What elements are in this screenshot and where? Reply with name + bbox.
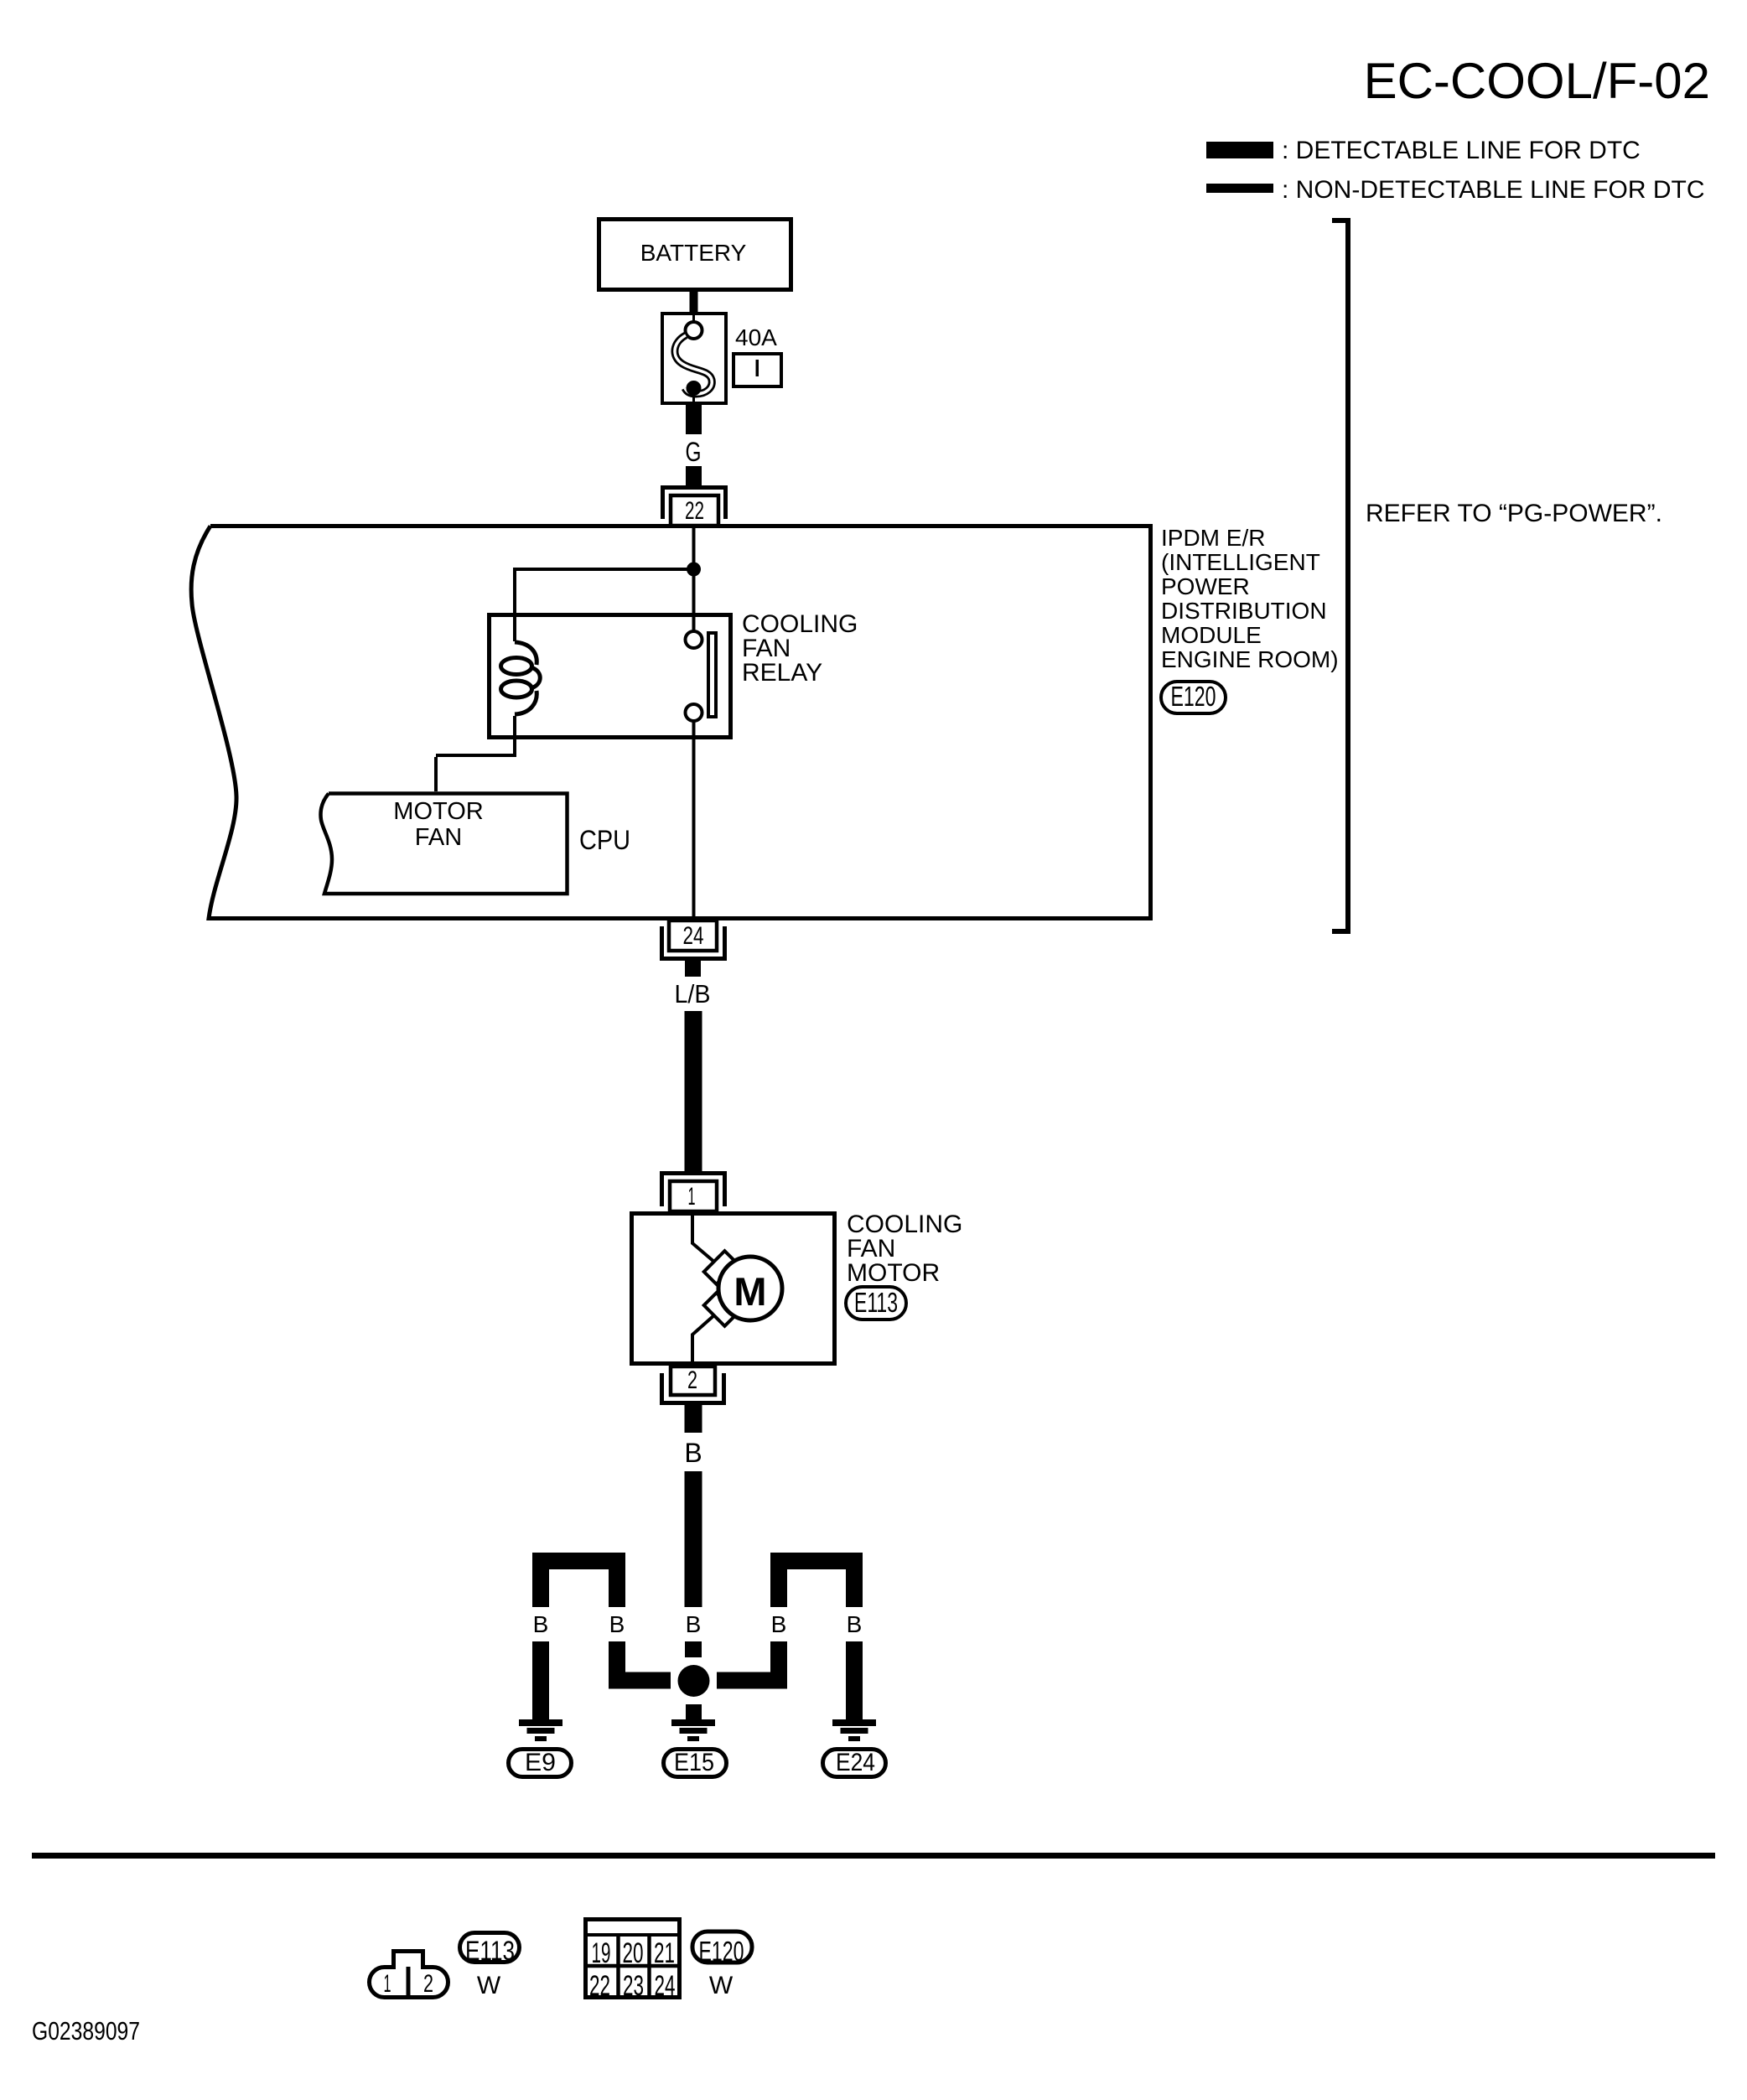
wire to upper brush xyxy=(692,1214,715,1263)
ground E15 xyxy=(671,1719,715,1741)
svg-text:24: 24 xyxy=(655,1970,676,2002)
connector label E9 xyxy=(509,1749,572,1777)
svg-text:W: W xyxy=(709,1972,734,1999)
relay contact xyxy=(686,631,717,721)
fuse location box I xyxy=(734,354,781,386)
svg-text:BATTERY: BATTERY xyxy=(640,240,747,266)
svg-text:23: 23 xyxy=(623,1970,644,2002)
label motor fan xyxy=(393,798,483,851)
svg-text:: NON-DETECTABLE LINE FOR DTC: : NON-DETECTABLE LINE FOR DTC xyxy=(1282,176,1705,204)
legend non-detectable line sample xyxy=(1206,184,1273,193)
svg-text:21: 21 xyxy=(654,1937,675,1969)
junction node xyxy=(687,563,701,577)
svg-text:B: B xyxy=(771,1611,787,1637)
svg-text:POWER: POWER xyxy=(1161,573,1250,599)
fusible link 40A xyxy=(662,314,726,403)
svg-text:MOTOR: MOTOR xyxy=(847,1259,940,1287)
battery xyxy=(599,220,791,290)
svg-text:(INTELLIGENT: (INTELLIGENT xyxy=(1161,549,1320,575)
right ground branch U xyxy=(779,1561,854,1607)
svg-text:G02389097: G02389097 xyxy=(32,2016,140,2046)
svg-text:G: G xyxy=(686,437,702,467)
cooling fan relay box xyxy=(490,615,731,738)
label cooling fan relay xyxy=(742,610,858,687)
wire E24 leg xyxy=(846,1641,863,1719)
wire B down xyxy=(685,1471,702,1607)
connector view E120 label xyxy=(692,1931,752,1999)
wire G to connector 22 xyxy=(686,466,702,485)
wire battery to fusible link xyxy=(690,290,698,313)
svg-text:19: 19 xyxy=(592,1937,611,1969)
relay coil xyxy=(501,642,541,714)
svg-text:B: B xyxy=(533,1611,549,1637)
svg-text:: DETECTABLE LINE FOR DTC: : DETECTABLE LINE FOR DTC xyxy=(1282,137,1641,164)
wire E9 leg xyxy=(532,1641,549,1719)
brace refer to PG-POWER xyxy=(1332,218,1350,934)
svg-text:MOTOR: MOTOR xyxy=(393,798,483,825)
IPDM E/R box xyxy=(191,526,1150,919)
svg-text:E113: E113 xyxy=(854,1287,898,1318)
connector view E113 (1|2) xyxy=(370,1952,448,2000)
svg-text:B: B xyxy=(609,1611,625,1637)
left ground branch U xyxy=(541,1561,617,1607)
svg-text:DISTRIBUTION: DISTRIBUTION xyxy=(1161,598,1327,624)
connector 2 xyxy=(662,1366,724,1403)
wire junction to coil (horizontal) xyxy=(515,568,694,571)
label cooling fan motor xyxy=(847,1211,962,1287)
wire 2 stub xyxy=(685,1405,702,1433)
separator line xyxy=(32,1853,1715,1859)
wire central to junction xyxy=(685,1641,702,1657)
svg-text:W: W xyxy=(477,1972,501,1999)
svg-text:RELAY: RELAY xyxy=(742,659,822,687)
svg-text:E9: E9 xyxy=(525,1749,556,1776)
connector label E120 xyxy=(1161,681,1226,713)
label IPDM E/R xyxy=(1161,525,1339,672)
wire relay to connector 24 xyxy=(692,722,696,919)
svg-text:40A: 40A xyxy=(735,324,777,350)
CPU box xyxy=(320,794,567,894)
svg-text:E120: E120 xyxy=(699,1936,744,1967)
svg-text:2: 2 xyxy=(423,1970,433,1998)
svg-text:E24: E24 xyxy=(836,1749,875,1776)
connector view E120 (grid 19-24) xyxy=(585,1920,680,2003)
svg-text:FAN: FAN xyxy=(415,824,462,851)
wire color B labels xyxy=(533,1611,863,1637)
svg-text:REFER TO “PG-POWER”.: REFER TO “PG-POWER”. xyxy=(1366,500,1662,527)
ground E9 xyxy=(519,1719,562,1741)
connector view E113 label xyxy=(460,1933,520,2000)
svg-text:B: B xyxy=(847,1611,863,1637)
svg-text:E113: E113 xyxy=(465,1936,515,1966)
svg-text:M: M xyxy=(734,1269,766,1314)
ground E24 xyxy=(832,1719,876,1741)
svg-text:L/B: L/B xyxy=(675,979,711,1009)
connector 22 xyxy=(663,488,726,526)
svg-text:E15: E15 xyxy=(674,1749,714,1776)
motor M xyxy=(718,1257,782,1320)
svg-text:1: 1 xyxy=(384,1970,391,1998)
svg-text:E120: E120 xyxy=(1171,681,1216,712)
ground junction node xyxy=(678,1665,710,1697)
wire 24 stub xyxy=(685,961,701,977)
svg-text:ENGINE ROOM): ENGINE ROOM) xyxy=(1161,646,1339,672)
connector label E24 xyxy=(823,1749,886,1777)
wire junction to relay contact xyxy=(692,576,696,631)
svg-text:2: 2 xyxy=(687,1366,697,1394)
lower brush xyxy=(704,1293,738,1326)
connector label E15 xyxy=(664,1749,727,1777)
svg-text:B: B xyxy=(684,1438,702,1468)
connector label E113 xyxy=(846,1287,906,1320)
wire fusible link to G xyxy=(686,405,702,434)
svg-text:24: 24 xyxy=(683,922,704,950)
wire coil to CPU xyxy=(434,716,516,791)
svg-text:20: 20 xyxy=(623,1937,644,1969)
wire 22 to junction xyxy=(692,527,696,569)
cooling fan motor box xyxy=(632,1214,835,1364)
wire B4 leg to junction xyxy=(717,1641,779,1681)
wire down to coil xyxy=(513,568,516,641)
upper brush xyxy=(704,1251,738,1284)
wire junction to E15 ground xyxy=(686,1704,702,1719)
svg-text:MODULE: MODULE xyxy=(1161,622,1262,648)
wire B2 leg to junction xyxy=(617,1641,671,1681)
legend detectable line sample xyxy=(1206,142,1273,158)
connector 1 xyxy=(662,1174,725,1212)
connector 24 xyxy=(662,920,725,959)
svg-text:B: B xyxy=(686,1611,702,1637)
wire L/B to connector 1 xyxy=(685,1011,702,1172)
svg-text:22: 22 xyxy=(589,1970,610,2002)
wire from lower brush xyxy=(692,1314,715,1366)
svg-text:CPU: CPU xyxy=(579,825,630,855)
svg-text:22: 22 xyxy=(685,497,704,525)
svg-text:IPDM E/R: IPDM E/R xyxy=(1161,525,1265,551)
svg-text:EC-COOL/F-02: EC-COOL/F-02 xyxy=(1364,53,1710,109)
svg-text:1: 1 xyxy=(688,1183,696,1211)
